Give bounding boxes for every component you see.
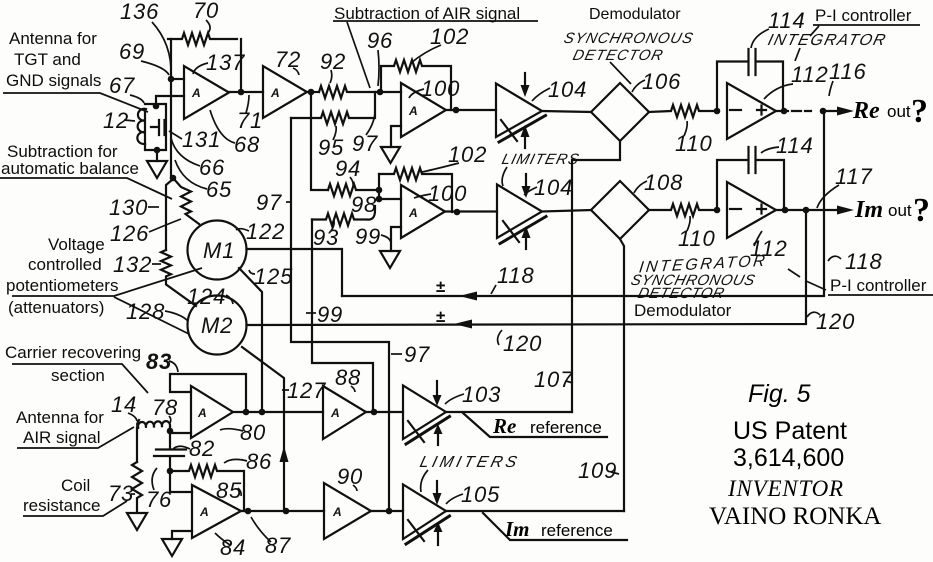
callout hook 85 bbox=[238, 488, 241, 496]
svg-text:99: 99 bbox=[317, 302, 343, 327]
resistor R92 bbox=[319, 86, 376, 98]
underline subtraction of AIR bbox=[333, 20, 538, 22]
pointer dashes P-I controller 2 bbox=[788, 269, 826, 290]
svg-text:127: 127 bbox=[287, 378, 326, 403]
node output of amp 72 bbox=[308, 89, 315, 96]
callout dash 12 bbox=[124, 120, 135, 121]
wire and arrow Re out bbox=[823, 110, 837, 112]
callout curve 76 bbox=[152, 468, 157, 490]
svg-text:69: 69 bbox=[119, 39, 145, 64]
ground below antenna box bbox=[147, 161, 167, 178]
svg-text:SYNCHRONOUS: SYNCHRONOUS bbox=[562, 30, 695, 47]
svg-text:117: 117 bbox=[835, 164, 872, 189]
svg-text:78: 78 bbox=[152, 395, 178, 420]
pointer limiters 1 to limiter 104-2 bbox=[502, 167, 507, 186]
node junction on Im reference line bbox=[386, 508, 393, 515]
wire amp 80 output to amp 88 bbox=[233, 411, 323, 413]
svg-text:12: 12 bbox=[103, 108, 129, 133]
limiter 103 slash bbox=[408, 421, 424, 442]
wire feedback right vertical to output bbox=[240, 39, 242, 92]
callout curve 97-1 bbox=[366, 113, 375, 135]
svg-text:114: 114 bbox=[768, 8, 805, 33]
svg-text:VAINO RONKA: VAINO RONKA bbox=[709, 503, 881, 530]
callout curve 120-1 bbox=[498, 330, 502, 345]
callout curve 116 bbox=[829, 81, 833, 96]
pointer integrator 1 bbox=[795, 48, 800, 61]
wire 127 from M2 to Im carrier node bbox=[242, 347, 284, 510]
node output integrator 1 bbox=[781, 108, 788, 115]
callout curve 92 bbox=[330, 70, 332, 83]
callout curve 104-2 bbox=[524, 187, 537, 195]
svg-text:82: 82 bbox=[189, 436, 215, 461]
callout dash 132 bbox=[152, 263, 161, 265]
svg-text:124: 124 bbox=[187, 284, 226, 309]
feedback capacitor C114-2 bbox=[717, 147, 784, 210]
svg-text:97: 97 bbox=[404, 342, 430, 367]
callout curve 67 bbox=[130, 95, 144, 103]
callout curve 86 bbox=[224, 459, 247, 463]
arrowhead Im out bbox=[837, 206, 854, 215]
callout curve 90 bbox=[353, 485, 357, 491]
callout curve 114-1 bbox=[751, 29, 769, 48]
callout tilde 118-2 bbox=[828, 256, 841, 261]
callout hook 125 bbox=[249, 270, 255, 274]
underline antenna TGT bbox=[3, 93, 148, 112]
wire integrator 2 output bbox=[776, 209, 837, 211]
callout curve 117 bbox=[817, 185, 839, 208]
node feedback tap amp 84 bbox=[245, 508, 252, 515]
callout curve 114-2 bbox=[761, 147, 779, 153]
svg-text:131: 131 bbox=[182, 127, 221, 152]
wire amp137 output to amp72 bbox=[229, 91, 263, 93]
limiter 104-2 arrows bbox=[525, 174, 527, 188]
wire summing node into amp 100-2 bbox=[379, 174, 401, 199]
svg-text:Im: Im bbox=[854, 197, 883, 223]
wire 107 detector 106 to Re reference bbox=[572, 141, 620, 412]
op-amp U137 bbox=[184, 66, 229, 119]
svg-text:controlled: controlled bbox=[28, 255, 102, 274]
svg-text:3,614,600: 3,614,600 bbox=[733, 444, 844, 472]
svg-text:92: 92 bbox=[320, 49, 346, 74]
ground amp 100-2 bbox=[380, 251, 400, 268]
ground amp 84 bbox=[162, 539, 182, 556]
resistor R132 bbox=[161, 250, 196, 306]
resistor R70 feedback of amp 137 bbox=[168, 33, 237, 45]
callout pointer subtraction of AIR bbox=[347, 22, 370, 88]
callout curve 95 bbox=[333, 126, 336, 140]
callout curve 128 bbox=[165, 311, 188, 321]
node integrator 2 input bbox=[714, 207, 721, 214]
op-amp integrator U112-2 bbox=[727, 182, 776, 238]
potentiometer M1 bbox=[188, 221, 247, 280]
svg-text:84: 84 bbox=[220, 535, 246, 560]
svg-text:INVENTOR: INVENTOR bbox=[727, 476, 844, 501]
callout dash 73 bbox=[131, 493, 135, 495]
svg-text:A: A bbox=[199, 505, 209, 519]
svg-text:97: 97 bbox=[352, 131, 378, 156]
callout curve 70 bbox=[206, 20, 210, 33]
op-amp U72 bbox=[263, 66, 307, 118]
callout curve 136 bbox=[152, 22, 171, 75]
callout curve 72 bbox=[293, 68, 299, 75]
svg-text:97: 97 bbox=[256, 190, 282, 215]
wire box top to amp137 lower input bbox=[156, 96, 184, 106]
node integrator 1 input bbox=[714, 108, 721, 115]
svg-text:68: 68 bbox=[234, 132, 260, 157]
wire amp 84 output to amp 90 bbox=[241, 510, 324, 512]
svg-text:reference: reference bbox=[530, 418, 602, 437]
underline coil resistance bbox=[23, 501, 127, 516]
svg-text:potentiometers: potentiometers bbox=[6, 276, 118, 295]
callout curve 100-2 bbox=[414, 194, 431, 198]
svg-text:114: 114 bbox=[776, 133, 813, 158]
callout dash 99-2 bbox=[306, 312, 316, 314]
svg-text:105: 105 bbox=[461, 482, 500, 507]
svg-text:Carrier recovering: Carrier recovering bbox=[5, 343, 141, 362]
wire 125 from M1 to carrier node bbox=[239, 268, 262, 412]
svg-text:US Patent: US Patent bbox=[733, 417, 847, 445]
potentiometer M2 bbox=[188, 296, 247, 355]
synchronous detector 106 diamond bbox=[591, 83, 649, 141]
callout curve 102-2 bbox=[422, 163, 459, 172]
callout curve 105 bbox=[446, 494, 463, 504]
node amp 88 output bbox=[371, 409, 378, 416]
svg-text:Fig. 5: Fig. 5 bbox=[748, 380, 811, 408]
wire 109 detector 108 to Im reference bbox=[620, 239, 624, 511]
wire amp 100-2 output to limiter 104-2 bbox=[445, 210, 497, 212]
svg-text:reference: reference bbox=[541, 521, 613, 540]
resistor R73 coil resistance bbox=[132, 462, 142, 512]
limiter 105 bbox=[403, 485, 446, 540]
svg-text:103: 103 bbox=[462, 382, 501, 407]
wire 120 M2 output P-I feedback line bbox=[247, 210, 807, 325]
underline antenna AIR bbox=[17, 427, 134, 448]
callout Re reference bbox=[463, 413, 607, 437]
svg-text:125: 125 bbox=[254, 264, 293, 289]
node 136 junction dot bbox=[168, 76, 175, 83]
callout curve 82 bbox=[172, 446, 190, 450]
svg-text:102: 102 bbox=[430, 24, 469, 49]
callout curve 69 bbox=[141, 61, 169, 75]
svg-text:67: 67 bbox=[109, 73, 135, 98]
node resistor 94 junction bbox=[376, 187, 383, 194]
svg-text:A: A bbox=[197, 406, 207, 420]
op-amp U100-1 bbox=[401, 83, 446, 137]
feedback loop resistor R102 amp 100-1 bbox=[381, 60, 451, 110]
svg-text:72: 72 bbox=[275, 47, 301, 72]
svg-text:132: 132 bbox=[113, 252, 152, 277]
svg-text:71: 71 bbox=[237, 108, 263, 133]
svg-text:A: A bbox=[408, 206, 418, 220]
svg-text:116: 116 bbox=[829, 59, 866, 84]
ground amp 100-1 bbox=[381, 147, 400, 163]
svg-text:Demodulator: Demodulator bbox=[589, 6, 681, 23]
callout curve 110-1 bbox=[684, 121, 687, 136]
handwritten words bbox=[418, 30, 889, 471]
svg-text:A: A bbox=[332, 505, 342, 519]
limiter 104-1 slash bbox=[501, 120, 517, 141]
svg-text:112: 112 bbox=[791, 62, 828, 87]
svg-text:(attenuators): (attenuators) bbox=[8, 298, 104, 317]
limiter 104-1 arrows bbox=[524, 73, 526, 87]
underline subtraction balance bbox=[0, 178, 172, 199]
svg-text:GND signals: GND signals bbox=[6, 71, 101, 90]
callout curve 68 bbox=[210, 110, 235, 143]
wire M1 output to line 118 riser bbox=[247, 249, 343, 296]
svg-text:76: 76 bbox=[146, 487, 172, 512]
resistor R110-1 bbox=[649, 105, 713, 117]
callout curve 83 bbox=[169, 361, 178, 372]
limiter 103 arrows bbox=[436, 381, 438, 396]
svg-text:98: 98 bbox=[351, 192, 377, 217]
underline carrier recovering bbox=[12, 364, 148, 393]
wire limiter 104-1 to detector 106 bbox=[542, 111, 591, 112]
resistor R130 bbox=[173, 178, 199, 224]
callout curve 124 bbox=[226, 295, 233, 304]
svg-text:100: 100 bbox=[421, 76, 460, 101]
callout curve 104-1 bbox=[532, 88, 550, 101]
svg-text:122: 122 bbox=[246, 219, 285, 244]
op-amp U88 bbox=[323, 386, 366, 439]
wire dashed output segment bbox=[776, 110, 811, 112]
figure caption block bbox=[709, 380, 881, 530]
svg-text:85: 85 bbox=[216, 478, 242, 503]
callout curve 78 bbox=[169, 416, 171, 423]
callout curve 94 bbox=[350, 177, 353, 187]
node 117 Im out junction bbox=[803, 207, 810, 214]
svg-text:section: section bbox=[51, 366, 105, 385]
svg-text:110: 110 bbox=[675, 131, 712, 156]
resistor R95 bbox=[291, 92, 375, 124]
inductor L78 air antenna coil bbox=[138, 421, 170, 428]
node 116 Re out junction bbox=[820, 108, 827, 115]
svg-text:?: ? bbox=[911, 93, 928, 130]
svg-text:104: 104 bbox=[548, 77, 587, 102]
svg-text:Voltage: Voltage bbox=[48, 235, 105, 254]
pointer P-I controller 1 bbox=[810, 26, 819, 36]
node top of antenna box bbox=[153, 103, 160, 110]
svg-text:65: 65 bbox=[206, 177, 232, 202]
svg-text:Antenna for: Antenna for bbox=[16, 408, 104, 427]
svg-text:137: 137 bbox=[206, 50, 245, 75]
svg-text:Re: Re bbox=[852, 98, 880, 124]
svg-text:83: 83 bbox=[146, 349, 172, 374]
svg-text:Im: Im bbox=[504, 517, 530, 541]
wire Im reference line bbox=[446, 510, 624, 512]
svg-text:106: 106 bbox=[642, 69, 681, 94]
svg-text:A: A bbox=[191, 86, 201, 100]
svg-text:±: ± bbox=[436, 277, 445, 296]
svg-text:87: 87 bbox=[265, 533, 291, 558]
underline P-I controller 2 bbox=[828, 294, 933, 296]
arrowhead on line 118 bbox=[459, 292, 477, 301]
callout curve 106 bbox=[632, 80, 645, 92]
wire amp 100-1 output to limiter 104-1 bbox=[446, 109, 496, 111]
callout curve 87 bbox=[251, 517, 271, 542]
callout curve 14 bbox=[128, 413, 137, 421]
wire amp72 output to resistor 92 bbox=[307, 91, 319, 93]
svg-text:96: 96 bbox=[367, 28, 393, 53]
callout Im reference bbox=[483, 513, 627, 540]
resistor R86 feedback to amp 84 output bbox=[170, 465, 244, 511]
svg-text:DETECTOR: DETECTOR bbox=[571, 47, 665, 64]
callout curve 122 bbox=[236, 229, 249, 231]
callout curve 71 bbox=[246, 95, 249, 113]
node 125 tap on carrier line bbox=[259, 409, 266, 416]
limiter 104-2 bbox=[497, 185, 542, 239]
svg-text:?: ? bbox=[913, 192, 930, 229]
svg-text:M1: M1 bbox=[203, 238, 235, 263]
svg-text:94: 94 bbox=[335, 156, 361, 181]
wire cap 82 branch bbox=[154, 431, 186, 471]
feedback wire 83 box of amp 80 bbox=[170, 374, 246, 412]
callout dash 127 bbox=[282, 389, 289, 391]
callout curve 112-2 bbox=[754, 231, 762, 246]
node 96 summing node channel 1 bbox=[377, 89, 384, 96]
svg-text:118: 118 bbox=[497, 263, 534, 288]
callout dash 130 bbox=[148, 206, 159, 208]
svg-text:A: A bbox=[270, 86, 280, 100]
callout dash 109 bbox=[611, 472, 619, 474]
svg-text:LIMITERS: LIMITERS bbox=[418, 453, 522, 471]
callout curve 65 bbox=[175, 160, 207, 189]
arrowhead up on wire 127 bbox=[280, 446, 289, 462]
svg-text:70: 70 bbox=[193, 0, 219, 23]
callout tilde 120-2 bbox=[807, 312, 820, 317]
svg-text:P-I controller: P-I controller bbox=[830, 276, 927, 295]
wire antenna down lead bbox=[137, 428, 138, 463]
svg-text:Antenna for: Antenna for bbox=[9, 29, 97, 48]
antenna stub 14 bbox=[137, 420, 139, 427]
callout dash 107 bbox=[566, 381, 573, 383]
wire amp 90 output to limiter 105 bbox=[371, 510, 403, 512]
node below capacitor 82 bbox=[167, 468, 174, 475]
svg-text:120: 120 bbox=[503, 331, 542, 356]
wire ground hook amp 100-1 bbox=[391, 126, 401, 147]
wire amp 84 lower input to ground bbox=[172, 531, 192, 539]
resistor R94 bbox=[328, 184, 375, 196]
callout curve 100-1 bbox=[409, 89, 424, 98]
callout curve 99-1 bbox=[381, 235, 391, 242]
limiter 105 arrows bbox=[436, 481, 438, 493]
svg-text:DETECTOR: DETECTOR bbox=[636, 285, 726, 302]
wire 118 P-I feedback to Re channel bbox=[342, 111, 824, 296]
callout curve 137 bbox=[193, 63, 208, 74]
pointer synchronous detector 1 bbox=[610, 62, 631, 84]
node output amp 100-2 bbox=[454, 209, 461, 216]
svg-text:automatic balance: automatic balance bbox=[1, 159, 139, 178]
wire limiter 104-2 to detector 108 bbox=[542, 210, 591, 212]
callout curve 96 bbox=[378, 50, 379, 86]
node 87 tap on Im carrier line bbox=[283, 508, 290, 515]
feedback capacitor C114-1 bbox=[717, 49, 783, 111]
synchronous detector 108 diamond bbox=[591, 181, 649, 239]
svg-text:A: A bbox=[408, 104, 418, 118]
op-amp U90 bbox=[324, 483, 371, 539]
svg-text:107: 107 bbox=[534, 367, 573, 392]
wire feedback left vertical x=173 node 136 down to attenuator chain bbox=[170, 39, 172, 178]
svg-text:AIR signal: AIR signal bbox=[23, 428, 100, 447]
svg-text:TGT and: TGT and bbox=[14, 50, 81, 69]
output text Re out bbox=[492, 93, 930, 541]
wire box bottom to ground bbox=[156, 150, 158, 161]
pointer limiters 2 to limiter 105 bbox=[421, 470, 428, 492]
callout curve 93 bbox=[331, 221, 334, 231]
svg-text:P-I controller: P-I controller bbox=[815, 6, 912, 25]
underline P-I controller 1 bbox=[813, 24, 920, 26]
svg-text:86: 86 bbox=[246, 449, 272, 474]
node coil output bbox=[167, 428, 174, 435]
arrowhead on line 120 bbox=[454, 320, 472, 329]
svg-text:88: 88 bbox=[335, 365, 361, 390]
callout curve 126 bbox=[149, 219, 181, 232]
svg-text:110: 110 bbox=[678, 226, 715, 251]
svg-text:108: 108 bbox=[644, 170, 683, 195]
svg-text:A: A bbox=[330, 406, 340, 420]
wire branch to resistor 132 bbox=[166, 179, 173, 250]
svg-text:±: ± bbox=[436, 307, 445, 326]
svg-text:130: 130 bbox=[109, 195, 148, 220]
svg-text:109: 109 bbox=[578, 458, 617, 483]
svg-text:out: out bbox=[887, 102, 911, 121]
resistor R110-2 bbox=[649, 204, 713, 216]
svg-text:80: 80 bbox=[240, 420, 266, 445]
svg-text:73: 73 bbox=[108, 481, 134, 506]
callout curve 102-1 bbox=[411, 45, 441, 63]
svg-text:resistance: resistance bbox=[23, 496, 100, 515]
callout dash 97-2 bbox=[391, 353, 402, 355]
svg-text:118: 118 bbox=[845, 249, 882, 274]
node 65 top of attenuator chain bbox=[170, 175, 177, 182]
svg-text:90: 90 bbox=[337, 464, 363, 489]
callout curve 103 bbox=[445, 394, 464, 404]
svg-text:14: 14 bbox=[111, 392, 137, 417]
svg-text:104: 104 bbox=[534, 175, 573, 200]
limiter 104-2 slash bbox=[503, 221, 519, 242]
wire amp137 upper input bbox=[171, 78, 184, 80]
node bottom of antenna box bbox=[154, 147, 161, 154]
callout dash 97-3 bbox=[286, 201, 292, 203]
feedback loop resistor R102 amp 100-2 bbox=[379, 168, 452, 212]
op-amp U84 bbox=[192, 485, 241, 538]
wire 97 vertical from resistor 95 down to Im-ref staircase bbox=[291, 118, 389, 511]
callout curve 88 bbox=[351, 386, 355, 392]
svg-text:Re: Re bbox=[492, 414, 516, 438]
wire coil node to amp 80 input bbox=[170, 427, 191, 433]
callout curve 112-1 bbox=[764, 84, 793, 99]
svg-text:126: 126 bbox=[110, 221, 149, 246]
callout dash 131 bbox=[169, 131, 182, 139]
svg-text:LIMITERS: LIMITERS bbox=[500, 151, 581, 168]
node 71 output of amp 137 bbox=[238, 89, 245, 96]
node output amp 100-1 bbox=[453, 107, 460, 114]
ground below resistor 73 bbox=[127, 513, 147, 530]
underline potentiometers bbox=[12, 268, 202, 334]
wire amp 88 output to limiter 103 bbox=[366, 411, 403, 413]
callout curve 110-2 bbox=[687, 216, 690, 231]
op-amp U80 bbox=[191, 386, 233, 438]
svg-text:INTEGRATOR: INTEGRATOR bbox=[766, 31, 889, 49]
limiter 105 slash bbox=[408, 520, 424, 541]
limiter 104-1 bbox=[496, 84, 542, 138]
wire Re reference line bbox=[446, 411, 572, 413]
node output integrator 2 bbox=[782, 207, 789, 214]
callout curve 80 bbox=[220, 429, 243, 431]
svg-text:out: out bbox=[888, 201, 912, 220]
wire ground hook amp 100-2 bbox=[391, 227, 401, 251]
svg-text:120: 120 bbox=[816, 309, 855, 334]
svg-text:Coil: Coil bbox=[61, 476, 90, 495]
